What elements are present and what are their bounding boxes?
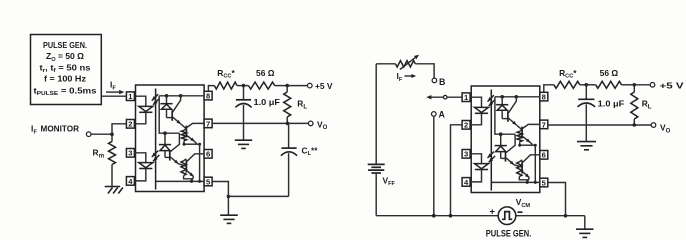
U2 PD2 to Q3 base lead: [501, 157, 505, 159]
U1 pin 6: [204, 150, 212, 159]
optocoupler U2 package outline: [471, 86, 540, 193]
U1 Q1 emitter to Q2 base wire: [181, 124, 186, 129]
U1 photodiode PD2: [164, 133, 166, 144]
svg-text:B: B: [439, 77, 445, 87]
wire to battery: [375, 64, 377, 164]
IF current arrow: [106, 91, 119, 93]
optocoupler U1 package outline: [136, 85, 205, 192]
svg-text:+5 V: +5 V: [660, 81, 685, 91]
variable resistor IF source: [396, 61, 416, 67]
junction node VO/RL: [286, 122, 290, 126]
svg-text:F: F: [34, 129, 38, 135]
U2 ch2 rail junction dot: [499, 132, 503, 136]
resistor 56 ohm right: [586, 84, 595, 86]
svg-text:2: 2: [128, 120, 132, 129]
U2 Vcc rail to pin 8: [495, 96, 540, 98]
U2 optical barrier line: [490, 90, 492, 191]
U1 optical barrier line: [155, 89, 157, 190]
+5V terminal: [308, 83, 313, 88]
svg-text:8: 8: [542, 93, 546, 102]
U2 rail junction dots: [500, 95, 504, 99]
U1 transistor Q4: [185, 160, 187, 173]
U2 pin 7: [540, 120, 548, 129]
U1 transistor Q1: [171, 110, 173, 121]
wire CL to ground junction: [228, 195, 288, 197]
U1 LED1 anode wire from pin 1: [134, 96, 145, 106]
+5V terminal right: [650, 83, 655, 88]
U1 channel 2 light arrows: [152, 151, 158, 157]
U1 pin 5: [204, 177, 212, 186]
svg-text:A: A: [439, 110, 446, 120]
U2 Q3 emitter to Q4 base wire: [514, 165, 522, 167]
resistor Rm: [109, 142, 116, 165]
pin 1 selector lead: [431, 96, 463, 98]
wire resistor to B terminal: [415, 64, 434, 78]
svg-text:56 Ω: 56 Ω: [256, 68, 275, 78]
wire pulse generator to pin 1: [101, 95, 126, 97]
U1 wire Vcc to channel 2 rail: [159, 96, 179, 133]
terminal A: [432, 112, 437, 117]
svg-text:8: 8: [206, 92, 210, 101]
U1 LED1 cathode wire to pin 2: [134, 112, 145, 124]
battery VFF: [368, 163, 385, 165]
U2 transistor Q2: [521, 127, 523, 139]
wire pin 5 to ground junction: [548, 183, 566, 216]
U2 PD1 to Q1 base lead: [502, 118, 507, 120]
resistor RCC* right: [544, 85, 554, 93]
svg-text:+: +: [490, 206, 496, 217]
VO output line: [212, 122, 309, 124]
pulse generator box: [31, 35, 102, 105]
U2 LED2 cathode wire to pin 4: [470, 170, 481, 182]
U2 pin 4: [462, 178, 470, 187]
U2 pin 6: [540, 151, 548, 160]
svg-text:1.0 μF: 1.0 μF: [254, 97, 281, 107]
U1 LED2 anode wire from pin 3: [134, 153, 145, 163]
ground below pin 5: [227, 196, 229, 214]
variable resistor arrow: [400, 58, 415, 70]
U1 ch2 rail junction dot: [163, 131, 167, 135]
wire to +5V terminal right: [634, 84, 650, 86]
U2 LED2: [475, 164, 489, 169]
wire to +5V terminal: [287, 85, 308, 87]
U1 transistor Q3: [169, 150, 171, 161]
svg-text:tr, tf = 50 ns: tr, tf = 50 ns: [40, 62, 91, 74]
U1 pin 7: [204, 119, 212, 128]
label - on VCM: [518, 211, 523, 213]
U2 wire Vcc to channel 2 rail: [495, 97, 515, 134]
resistor RL: [286, 86, 288, 92]
U2 transistor Q1: [507, 111, 509, 122]
U2 channel 2 light arrows: [488, 152, 494, 158]
junction node +5V/RL: [285, 84, 289, 88]
svg-text:7: 7: [542, 120, 546, 129]
U1 PD2 to Q3 base lead: [165, 156, 169, 158]
junction node A/rail: [432, 214, 436, 218]
wire VCM to ground junction: [516, 215, 585, 217]
U1 pin 4: [126, 177, 134, 186]
VO terminal: [308, 121, 313, 126]
ground below 1.0 uF: [235, 139, 252, 141]
U1 LED2 cathode wire to pin 4: [134, 169, 145, 181]
junction node RCC/56ohm: [242, 84, 246, 88]
wire pin 2 to rail: [451, 125, 463, 216]
svg-text:1.0 μF: 1.0 μF: [598, 99, 625, 109]
U2 photodiode PD2: [500, 134, 502, 145]
wire A to bottom rail: [433, 116, 435, 216]
VCM pulse generator: [498, 207, 516, 225]
resistor RCC*: [208, 86, 214, 92]
U1 transistor Q2: [185, 126, 187, 138]
U1 resistor R1: [181, 130, 186, 140]
bottom rail: [376, 215, 498, 217]
U2 transistor Q4: [521, 161, 523, 174]
svg-text:PULSE GEN.: PULSE GEN.: [43, 40, 87, 50]
U2 LED2 anode wire from pin 3: [470, 154, 481, 164]
U1 channel 1 light arrows: [152, 94, 158, 100]
U2 LED1 anode wire from pin 1: [470, 97, 481, 107]
wire junction to pin 2: [112, 124, 126, 134]
U1 LED1: [139, 106, 153, 111]
junction node +5V/RL right: [633, 83, 637, 87]
capacitor 1.0 uF: [243, 86, 245, 100]
U1 PD1 to Q1 base lead: [167, 117, 172, 119]
IF MONITOR terminal: [86, 132, 91, 137]
junction node RCC/56ohm right: [585, 83, 589, 87]
U2 pin 3: [462, 150, 470, 159]
U2 pin 2: [462, 121, 470, 130]
junction node pin2/rail: [449, 214, 453, 218]
terminal B: [432, 78, 437, 83]
ground below 1.0 uF right: [577, 141, 596, 143]
U1 Vcc rail to pin 8: [159, 95, 204, 97]
U2 ground rail to pin 5: [491, 181, 540, 183]
U2 pin 8: [540, 92, 548, 101]
wire to variable resistor: [376, 63, 395, 65]
U2 transistor Q3: [505, 151, 507, 162]
ground junction node: [227, 195, 231, 199]
U2 photodiode PD1: [501, 97, 503, 105]
VO output line right: [548, 124, 652, 126]
svg-text:2: 2: [464, 121, 468, 130]
svg-text:56 Ω: 56 Ω: [600, 68, 619, 78]
ground junction node right: [564, 214, 568, 218]
svg-text:6: 6: [542, 151, 546, 160]
ground (chassis) below Rm: [105, 186, 121, 188]
selector lead circle: [443, 95, 447, 99]
svg-text:3: 3: [128, 149, 132, 158]
U1 pin 2: [126, 120, 134, 129]
resistor 56 ohm: [244, 85, 249, 87]
resistor RL right: [633, 85, 635, 92]
svg-text:6: 6: [206, 150, 210, 159]
svg-text:f = 100 Hz: f = 100 Hz: [44, 74, 86, 84]
VO terminal right: [651, 123, 656, 128]
U1 channel 1 emitter rail: [184, 143, 200, 145]
U1 pin 3: [126, 149, 134, 158]
U1 pin 8: [204, 91, 212, 100]
ground right circuit: [584, 216, 586, 229]
U2 LED1 cathode wire to pin 2: [470, 113, 481, 125]
U2 channel 1 emitter rail: [520, 144, 536, 146]
U1 rail junction dots: [165, 94, 169, 98]
svg-text:3: 3: [464, 150, 468, 159]
U2 resistor R2: [517, 162, 522, 177]
svg-text:7: 7: [206, 119, 210, 128]
U1 Q3 emitter to Q4 base wire: [178, 164, 186, 166]
capacitor 1.0 uF right: [585, 85, 587, 99]
junction node at Rm top: [110, 132, 114, 136]
U1 ground rail to pin 5: [156, 180, 205, 182]
wire IF MONITOR to junction: [91, 133, 112, 135]
wire pin 5 to ground: [212, 182, 228, 197]
U2 pin 5: [540, 178, 548, 187]
U2 channel 1 light arrows: [488, 95, 494, 101]
svg-text:PULSE GEN.: PULSE GEN.: [486, 229, 532, 239]
svg-text:MONITOR: MONITOR: [41, 124, 80, 134]
U1 photodiode PD1: [166, 96, 168, 104]
junction node VO/RL right: [633, 123, 637, 127]
U2 resistor R1: [517, 131, 522, 141]
U2 Q1 emitter to Q2 base wire: [517, 125, 522, 130]
U2 LED1: [475, 107, 489, 112]
svg-text:+5 V: +5 V: [315, 81, 333, 91]
U1 resistor R2: [181, 161, 186, 176]
U2 pin 1: [462, 93, 470, 102]
U1 pin 1: [126, 92, 134, 101]
U1 LED2: [139, 163, 153, 168]
capacitor CL**: [288, 123, 290, 147]
